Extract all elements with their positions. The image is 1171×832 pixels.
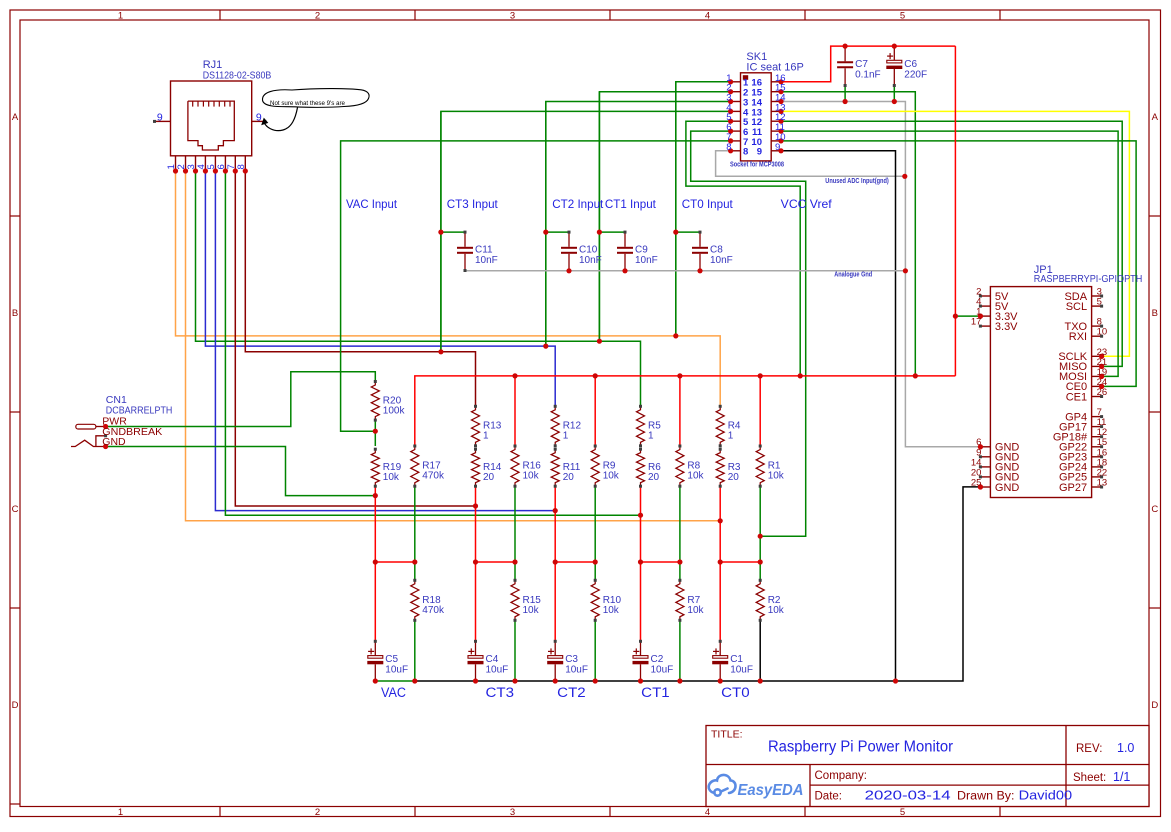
svg-text:C7: C7 xyxy=(855,59,868,70)
svg-text:10uF: 10uF xyxy=(651,665,674,676)
svg-text:9: 9 xyxy=(157,111,163,123)
svg-text:VCC Vref: VCC Vref xyxy=(781,197,833,211)
svg-text:25: 25 xyxy=(971,478,982,489)
svg-text:2: 2 xyxy=(315,10,320,21)
svg-text:C: C xyxy=(12,504,19,515)
svg-text:13: 13 xyxy=(1097,478,1108,489)
svg-text:10k: 10k xyxy=(603,605,620,616)
svg-text:9: 9 xyxy=(256,111,262,123)
svg-text:1: 1 xyxy=(118,807,123,818)
svg-text:CT2 Input: CT2 Input xyxy=(552,197,604,211)
svg-text:10k: 10k xyxy=(603,471,620,482)
svg-text:C: C xyxy=(1151,504,1158,515)
svg-text:10k: 10k xyxy=(523,471,540,482)
svg-text:1: 1 xyxy=(728,431,734,442)
svg-text:4: 4 xyxy=(705,807,710,818)
svg-text:CE1: CE1 xyxy=(1066,391,1087,403)
svg-text:20: 20 xyxy=(648,472,660,483)
svg-text:1/1: 1/1 xyxy=(1113,770,1130,784)
svg-text:Sheet:: Sheet: xyxy=(1073,772,1106,784)
svg-text:10k: 10k xyxy=(687,605,704,616)
svg-text:CT1 Input: CT1 Input xyxy=(605,197,657,211)
svg-text:2020-03-14: 2020-03-14 xyxy=(865,789,951,803)
svg-text:20: 20 xyxy=(483,472,495,483)
svg-text:10uF: 10uF xyxy=(730,665,753,676)
svg-text:SCL: SCL xyxy=(1066,301,1087,313)
svg-text:Drawn By:: Drawn By: xyxy=(957,791,1015,803)
svg-text:VAC: VAC xyxy=(381,685,406,700)
svg-text:CT3 Input: CT3 Input xyxy=(447,197,499,211)
svg-text:10nF: 10nF xyxy=(710,255,733,266)
svg-text:David00: David00 xyxy=(1019,789,1073,803)
svg-text:100k: 100k xyxy=(383,405,406,416)
svg-text:220F: 220F xyxy=(904,69,927,80)
svg-text:10k: 10k xyxy=(768,471,785,482)
svg-text:C3: C3 xyxy=(565,654,578,665)
svg-text:10uF: 10uF xyxy=(486,665,509,676)
svg-text:10k: 10k xyxy=(687,471,704,482)
svg-text:GND: GND xyxy=(995,482,1020,494)
svg-text:4: 4 xyxy=(705,10,710,21)
svg-text:GND: GND xyxy=(102,436,126,448)
svg-text:10uF: 10uF xyxy=(385,665,408,676)
svg-text:5: 5 xyxy=(900,807,905,818)
svg-text:1: 1 xyxy=(483,431,489,442)
svg-text:10uF: 10uF xyxy=(565,665,588,676)
svg-text:D: D xyxy=(12,700,19,711)
svg-text:C11: C11 xyxy=(475,244,493,255)
svg-text:CT1: CT1 xyxy=(641,685,670,700)
svg-text:Analogue Gnd: Analogue Gnd xyxy=(834,270,872,279)
svg-text:C9: C9 xyxy=(635,244,648,255)
svg-text:5: 5 xyxy=(1097,297,1102,308)
svg-text:CT2: CT2 xyxy=(557,685,586,700)
svg-text:C2: C2 xyxy=(651,654,664,665)
svg-text:Company:: Company: xyxy=(815,770,867,782)
svg-text:RXI: RXI xyxy=(1069,331,1087,343)
svg-text:2: 2 xyxy=(315,807,320,818)
svg-text:10nF: 10nF xyxy=(579,255,602,266)
svg-text:GP27: GP27 xyxy=(1059,482,1087,494)
svg-text:20: 20 xyxy=(563,472,575,483)
svg-text:CT3: CT3 xyxy=(486,685,515,700)
svg-text:D: D xyxy=(1151,700,1158,711)
svg-text:C6: C6 xyxy=(904,59,917,70)
svg-text:C8: C8 xyxy=(710,244,723,255)
svg-text:26: 26 xyxy=(1097,387,1108,398)
svg-text:IC seat 16P: IC seat 16P xyxy=(746,62,803,74)
svg-text:10k: 10k xyxy=(383,472,400,483)
svg-text:5: 5 xyxy=(900,10,905,21)
svg-text:Date:: Date: xyxy=(815,791,843,803)
svg-text:1.0: 1.0 xyxy=(1117,741,1134,755)
svg-text:Unused ADC Input(gnd): Unused ADC Input(gnd) xyxy=(825,176,889,185)
svg-text:3: 3 xyxy=(510,10,515,21)
svg-text:DS1128-02-S80B: DS1128-02-S80B xyxy=(203,70,272,82)
svg-text:TITLE:: TITLE: xyxy=(711,729,743,741)
svg-text:3: 3 xyxy=(510,807,515,818)
svg-text:3.3V: 3.3V xyxy=(995,321,1018,333)
svg-text:1: 1 xyxy=(118,10,123,21)
svg-text:C10: C10 xyxy=(579,244,598,255)
svg-text:C4: C4 xyxy=(486,654,499,665)
svg-text:470k: 470k xyxy=(422,471,445,482)
svg-text:9: 9 xyxy=(775,142,780,153)
svg-text:C1: C1 xyxy=(730,654,743,665)
svg-text:Socket for MCP3008: Socket for MCP3008 xyxy=(730,160,784,169)
svg-text:CT0: CT0 xyxy=(721,685,750,700)
svg-text:17: 17 xyxy=(971,317,982,328)
svg-text:EasyEDA: EasyEDA xyxy=(738,782,804,799)
svg-text:1: 1 xyxy=(648,431,654,442)
svg-text:8: 8 xyxy=(726,142,731,153)
svg-text:10k: 10k xyxy=(523,605,540,616)
svg-text:C5: C5 xyxy=(385,654,398,665)
svg-text:VAC Input: VAC Input xyxy=(346,197,398,211)
svg-text:8: 8 xyxy=(743,147,748,158)
svg-text:20: 20 xyxy=(728,472,740,483)
svg-text:10nF: 10nF xyxy=(635,255,658,266)
svg-text:9: 9 xyxy=(757,147,762,158)
svg-text:10: 10 xyxy=(1097,327,1108,338)
svg-text:470k: 470k xyxy=(422,605,445,616)
svg-text:10nF: 10nF xyxy=(475,255,498,266)
svg-text:RASPBERRYPI-GPIOPTH: RASPBERRYPI-GPIOPTH xyxy=(1034,273,1143,285)
svg-text:1: 1 xyxy=(563,431,569,442)
svg-text:Not sure what these 9's are: Not sure what these 9's are xyxy=(270,100,346,107)
svg-text:0.1nF: 0.1nF xyxy=(855,69,881,80)
svg-text:REV:: REV: xyxy=(1076,743,1102,755)
svg-text:B: B xyxy=(12,308,18,319)
svg-text:B: B xyxy=(1152,308,1158,319)
svg-text:CT0 Input: CT0 Input xyxy=(682,197,734,211)
svg-text:A: A xyxy=(1152,112,1159,123)
svg-text:A: A xyxy=(12,112,19,123)
svg-text:Raspberry Pi Power Monitor: Raspberry Pi Power Monitor xyxy=(768,739,953,756)
svg-text:10k: 10k xyxy=(768,605,785,616)
